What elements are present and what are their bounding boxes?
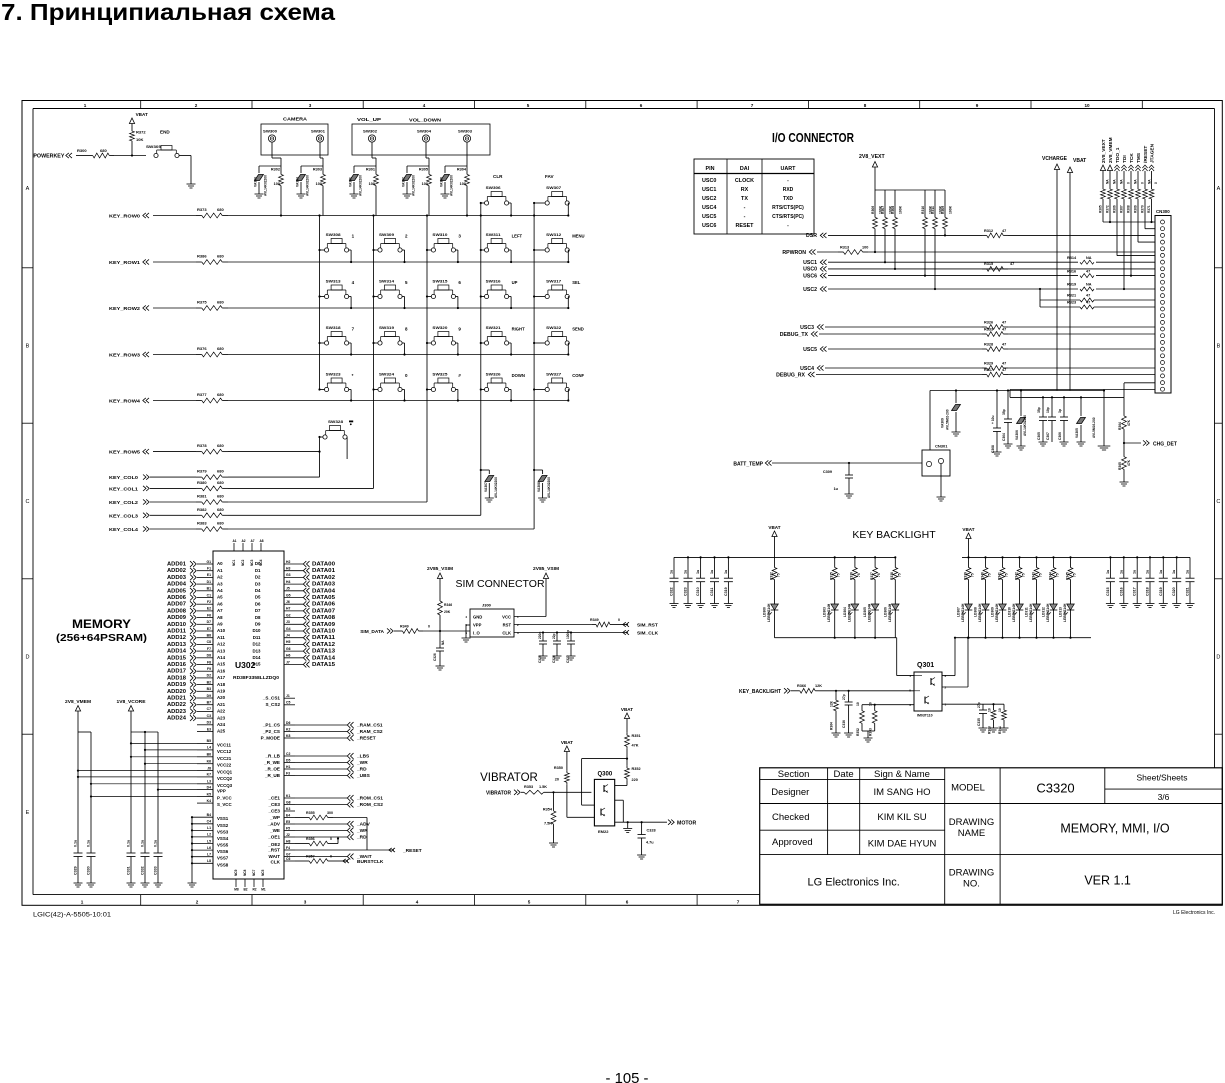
svg-text:C5: C5 (286, 701, 290, 705)
svg-text:SIM_CLK: SIM_CLK (637, 631, 659, 637)
svg-text:D: D (26, 655, 30, 661)
svg-text:47: 47 (1002, 321, 1006, 325)
svg-text:E2: E2 (207, 607, 211, 611)
svg-text:AVL14K02200: AVL14K02200 (412, 175, 416, 196)
svg-text:_CE3: _CE3 (268, 802, 281, 807)
svg-text:1u: 1u (670, 570, 674, 574)
svg-text:S_VCC: S_VCC (217, 802, 232, 807)
svg-text:R349: R349 (590, 618, 599, 622)
svg-text:3p: 3p (1058, 409, 1062, 413)
svg-text:C7: C7 (207, 707, 211, 711)
svg-text:R352: R352 (856, 728, 860, 736)
svg-text:L2: L2 (207, 833, 211, 837)
svg-text:K5: K5 (207, 792, 211, 796)
svg-text:0: 0 (330, 855, 332, 859)
svg-text:H7: H7 (286, 607, 290, 611)
svg-text:DRAWING: DRAWING (949, 817, 995, 828)
svg-text:PIN: PIN (706, 166, 715, 172)
svg-text:_CE3: _CE3 (268, 808, 281, 813)
svg-text:SEL: SEL (572, 280, 581, 285)
svg-text:NA: NA (1113, 179, 1117, 184)
svg-text:G5: G5 (286, 593, 291, 597)
svg-text:680: 680 (217, 443, 224, 448)
svg-text:AVL14K02200: AVL14K02200 (1023, 415, 1027, 436)
svg-text:NC5: NC5 (261, 869, 265, 876)
svg-text:C317: C317 (1133, 587, 1137, 596)
svg-text:A19: A19 (217, 689, 226, 694)
svg-text:47: 47 (1086, 294, 1090, 298)
svg-text:VIBRATOR: VIBRATOR (486, 790, 511, 796)
svg-text:E1: E1 (207, 573, 211, 577)
svg-text:VSS3: VSS3 (217, 829, 229, 834)
svg-text:300: 300 (327, 811, 333, 815)
svg-text:0: 0 (1154, 182, 1158, 184)
svg-text:R353: R353 (869, 728, 873, 736)
svg-text:KEY_COL4: KEY_COL4 (109, 527, 139, 532)
svg-text:AVL14K02200: AVL14K02200 (494, 477, 498, 498)
svg-text:1u: 1u (1133, 570, 1137, 574)
svg-text:VCC12: VCC12 (217, 749, 232, 754)
svg-text:3/6: 3/6 (1158, 792, 1170, 802)
svg-text:R380: R380 (197, 480, 207, 485)
svg-text:A12: A12 (217, 642, 226, 647)
svg-text:A23: A23 (217, 715, 226, 720)
svg-text:L6: L6 (207, 846, 211, 850)
svg-text:AVL5M02-200: AVL5M02-200 (946, 409, 950, 430)
svg-text:R341: R341 (997, 572, 1001, 580)
svg-text:BURSTCLK: BURSTCLK (357, 859, 384, 865)
svg-text:0: 0 (618, 618, 620, 622)
svg-text:D15: D15 (252, 662, 261, 667)
svg-text:IM SANG HO: IM SANG HO (873, 787, 930, 798)
svg-text:9: 9 (458, 327, 461, 332)
svg-text:J4: J4 (286, 634, 290, 638)
svg-text:CLK: CLK (271, 859, 281, 864)
svg-text:F1: F1 (207, 567, 211, 571)
svg-text:A1: A1 (232, 539, 236, 543)
svg-text:USC0: USC0 (702, 178, 716, 184)
svg-text:R356: R356 (306, 837, 315, 841)
svg-text:VSS8: VSS8 (217, 862, 229, 867)
svg-text:R312: R312 (984, 229, 993, 233)
svg-text:2: 2 (405, 234, 408, 239)
svg-text:LD304: LD304 (843, 607, 847, 617)
svg-text:_RESET: _RESET (402, 848, 422, 854)
svg-text:MEMORY, MMI, I/O: MEMORY, MMI, I/O (1060, 822, 1170, 836)
svg-text:CTS/RTS(PC): CTS/RTS(PC) (772, 214, 804, 220)
svg-text:R315: R315 (984, 262, 993, 266)
svg-text:DATA09: DATA09 (312, 622, 335, 628)
svg-text:SW322: SW322 (546, 326, 561, 330)
svg-text:10: 10 (869, 702, 873, 706)
svg-text:A8: A8 (217, 615, 223, 620)
svg-text:10: 10 (988, 708, 992, 712)
svg-text:J2: J2 (286, 833, 290, 837)
svg-text:NA: NA (1086, 283, 1092, 287)
svg-text:47: 47 (1010, 262, 1014, 266)
svg-text:AVL14K02200: AVL14K02200 (450, 175, 454, 196)
svg-text:7. Принципиальная схема: 7. Принципиальная схема (1, 0, 335, 25)
svg-text:R376: R376 (197, 346, 207, 351)
svg-text:LEBB-S14H: LEBB-S14H (827, 603, 831, 622)
svg-text:L4: L4 (207, 746, 211, 750)
svg-text:SW325: SW325 (432, 373, 447, 377)
svg-text:NA: NA (441, 640, 445, 645)
svg-text:10: 10 (1084, 103, 1090, 108)
svg-text:C316: C316 (1119, 587, 1123, 596)
svg-text:C315: C315 (1106, 587, 1110, 596)
svg-text:GND: GND (473, 615, 482, 620)
svg-text:A25: A25 (217, 729, 226, 734)
svg-text:VCHARGE: VCHARGE (1042, 156, 1068, 162)
svg-text:C307: C307 (1046, 432, 1050, 440)
svg-text:D2: D2 (255, 575, 261, 580)
svg-text:G8: G8 (286, 800, 291, 804)
svg-text:_RESET: _RESET (356, 736, 376, 742)
svg-text:LD306: LD306 (883, 607, 887, 617)
svg-text:LD305: LD305 (863, 607, 867, 617)
svg-text:R349: R349 (400, 625, 409, 629)
svg-text:KEY_ROW1: KEY_ROW1 (109, 260, 141, 265)
svg-text:7.5K: 7.5K (544, 822, 552, 826)
svg-text:0.1u: 0.1u (141, 840, 145, 847)
svg-text:CLOCK: CLOCK (735, 178, 754, 184)
svg-text:RST: RST (503, 623, 512, 628)
svg-text:R377: R377 (197, 392, 207, 397)
svg-text:C310: C310 (696, 587, 700, 596)
svg-text:_ADV: _ADV (356, 822, 371, 828)
svg-text:47: 47 (1002, 343, 1006, 347)
svg-text:ADD19: ADD19 (167, 682, 186, 688)
svg-text:27p: 27p (842, 694, 846, 700)
svg-text:C327: C327 (566, 655, 570, 663)
svg-text:E3: E3 (207, 727, 211, 731)
svg-text:DATA05: DATA05 (312, 595, 335, 601)
svg-text:R300: R300 (77, 148, 87, 153)
svg-text:A13: A13 (217, 648, 226, 653)
svg-text:5: 5 (405, 280, 408, 285)
svg-text:2: 2 (196, 900, 199, 905)
svg-text:K4: K4 (207, 799, 211, 803)
svg-text:TDO_1: TDO_1 (1115, 147, 1121, 163)
svg-text:R305: R305 (419, 168, 428, 172)
svg-text:A7: A7 (217, 608, 223, 613)
svg-text:0.1u: 0.1u (154, 840, 158, 847)
svg-text:R367: R367 (1120, 205, 1124, 213)
svg-text:0: 0 (1141, 182, 1145, 184)
svg-text:I_O: I_O (473, 631, 480, 636)
svg-text:VA304: VA304 (296, 177, 300, 187)
svg-text:10: 10 (856, 702, 860, 706)
svg-text:7: 7 (751, 103, 754, 108)
svg-text:75: 75 (1005, 573, 1009, 577)
svg-text:VSS5: VSS5 (217, 843, 229, 848)
svg-text:C320: C320 (1172, 587, 1176, 596)
svg-text:A20: A20 (217, 695, 226, 700)
svg-text:VPP: VPP (473, 623, 482, 628)
svg-text:J5: J5 (286, 587, 290, 591)
svg-text:2V8_VMEM: 2V8_VMEM (65, 699, 91, 705)
svg-text:DATA00: DATA00 (312, 562, 335, 568)
svg-text:ADD17: ADD17 (167, 669, 186, 675)
svg-text:4: 4 (423, 103, 426, 108)
svg-text:RESET: RESET (736, 223, 755, 229)
svg-text:R369: R369 (1134, 205, 1138, 213)
svg-text:R353: R353 (524, 785, 533, 789)
svg-text:DRAWING: DRAWING (949, 868, 995, 879)
svg-text:20: 20 (555, 778, 559, 782)
svg-text:DATA07: DATA07 (312, 608, 335, 614)
svg-text:DATA15: DATA15 (312, 662, 335, 668)
svg-text:R335: R335 (830, 572, 834, 580)
svg-text:SEND: SEND (572, 327, 584, 332)
svg-text:6: 6 (458, 280, 461, 285)
svg-text:L3: L3 (207, 780, 211, 784)
svg-text:UP: UP (512, 280, 518, 285)
svg-text:D3: D3 (255, 581, 261, 586)
svg-text:75: 75 (1039, 573, 1043, 577)
svg-text:LEBB-S14H: LEBB-S14H (1029, 603, 1033, 622)
svg-text:ADD05: ADD05 (167, 588, 186, 594)
svg-text:2V85_VSIM: 2V85_VSIM (427, 566, 453, 571)
svg-text:R383: R383 (197, 521, 207, 526)
svg-text:NA: NA (1148, 179, 1152, 184)
svg-text:KEY_COL1: KEY_COL1 (109, 486, 139, 491)
svg-text:SW302: SW302 (363, 130, 377, 134)
svg-text:TMS: TMS (1136, 152, 1142, 163)
svg-text:47: 47 (1086, 269, 1090, 273)
svg-text:R321: R321 (1067, 294, 1076, 298)
svg-text:H8: H8 (286, 839, 290, 843)
svg-text:F8: F8 (207, 660, 211, 664)
svg-text:680: 680 (217, 346, 224, 351)
svg-text:VIBRATOR: VIBRATOR (480, 772, 538, 784)
svg-text:0.1u: 0.1u (87, 840, 91, 847)
svg-text:Q300: Q300 (598, 772, 613, 778)
svg-text:C332: C332 (141, 866, 145, 875)
svg-text:R360: R360 (988, 726, 992, 734)
svg-text:R364: R364 (830, 722, 834, 730)
svg-text:D8: D8 (207, 654, 211, 658)
svg-text:75: 75 (1022, 573, 1026, 577)
svg-text:2V8_VEXT: 2V8_VEXT (1101, 139, 1107, 163)
svg-text:R2: R2 (252, 888, 256, 892)
svg-text:VER 1.1: VER 1.1 (1084, 874, 1131, 888)
svg-text:B4: B4 (207, 813, 211, 817)
svg-text:VA309: VA309 (941, 418, 945, 428)
svg-text:F9: F9 (207, 667, 211, 671)
svg-text:LEBB-S14H: LEBB-S14H (1012, 603, 1016, 622)
svg-text:USC6: USC6 (803, 273, 817, 279)
svg-text:VSS1: VSS1 (217, 816, 229, 821)
svg-text:A15: A15 (217, 662, 226, 667)
svg-text:_WR: _WR (356, 760, 368, 766)
svg-text:LEBB-S14H: LEBB-S14H (995, 603, 999, 622)
svg-text:-: - (744, 205, 746, 211)
svg-text:C322: C322 (670, 587, 674, 596)
svg-text:1: 1 (517, 615, 519, 619)
svg-text:C318: C318 (1146, 587, 1150, 596)
svg-text:ADD10: ADD10 (167, 622, 186, 628)
svg-text:Checked: Checked (772, 812, 810, 823)
svg-text:L1: L1 (207, 826, 211, 830)
svg-text:4: 4 (465, 615, 467, 619)
svg-text:R357: R357 (306, 855, 315, 859)
svg-text:SW301: SW301 (311, 130, 325, 134)
svg-text:_RD: _RD (356, 767, 367, 773)
svg-text:ADD08: ADD08 (167, 608, 186, 614)
svg-text:MODEL: MODEL (951, 783, 985, 794)
svg-text:A7: A7 (250, 539, 254, 543)
svg-text:B2: B2 (243, 888, 247, 892)
svg-text:A: A (26, 186, 30, 192)
svg-text:ADD07: ADD07 (167, 602, 186, 608)
svg-text:RX: RX (741, 187, 749, 193)
svg-text:R382: R382 (197, 507, 207, 512)
svg-text:E4: E4 (286, 813, 290, 817)
svg-text:A5: A5 (217, 595, 223, 600)
svg-text:SW317: SW317 (546, 280, 561, 284)
svg-text:KEY_BACKLIGHT: KEY_BACKLIGHT (739, 689, 781, 695)
svg-text:D5: D5 (255, 595, 261, 600)
svg-text:B: B (1217, 344, 1221, 350)
svg-text:F6: F6 (207, 613, 211, 617)
svg-text:ADD04: ADD04 (167, 582, 186, 588)
svg-text:1u: 1u (724, 570, 728, 574)
svg-text:LD312: LD312 (1042, 607, 1046, 617)
svg-text:22p: 22p (552, 633, 556, 639)
svg-text:VA300: VA300 (440, 177, 444, 187)
svg-text:C319: C319 (1159, 587, 1163, 596)
svg-text:NA: NA (1086, 256, 1092, 260)
svg-text:C2: C2 (286, 752, 290, 756)
svg-text:680: 680 (217, 300, 224, 305)
svg-text:R350: R350 (554, 766, 563, 770)
svg-text:R351: R351 (632, 734, 641, 738)
svg-text:R316: R316 (1067, 269, 1076, 273)
svg-text:0: 0 (1127, 182, 1131, 184)
svg-text:100K: 100K (898, 205, 902, 214)
svg-text:R346: R346 (444, 603, 452, 607)
svg-text:DATA01: DATA01 (312, 568, 335, 574)
svg-text:3: 3 (304, 900, 307, 905)
svg-text:C305: C305 (1037, 432, 1041, 440)
svg-text:KEY_ROW3: KEY_ROW3 (109, 353, 141, 358)
svg-text:SW326: SW326 (486, 373, 501, 377)
svg-text:VBAT: VBAT (621, 707, 633, 712)
svg-text:4: 4 (416, 900, 419, 905)
svg-text:_R_OE: _R_OE (264, 766, 280, 771)
svg-text:47K: 47K (632, 744, 639, 748)
svg-text:I/O CONNECTOR: I/O CONNECTOR (772, 131, 854, 145)
svg-text:20K: 20K (444, 610, 451, 614)
svg-text:USC5: USC5 (803, 347, 817, 353)
svg-text:C4: C4 (207, 820, 211, 824)
svg-text:_CE1: _CE1 (268, 795, 281, 800)
svg-text:DATA04: DATA04 (312, 588, 335, 594)
svg-text:DSR: DSR (806, 233, 817, 239)
svg-text:SW308: SW308 (326, 233, 341, 237)
svg-text:R344: R344 (1048, 572, 1052, 580)
svg-text:VCC21: VCC21 (217, 756, 232, 761)
svg-text:A2: A2 (217, 575, 223, 580)
svg-text:680: 680 (217, 207, 224, 212)
svg-text:Date: Date (834, 769, 854, 780)
svg-text:75: 75 (1056, 573, 1060, 577)
svg-text:D1: D1 (255, 568, 261, 573)
svg-text:USC3: USC3 (800, 325, 814, 331)
svg-text:P_MODE: P_MODE (261, 735, 280, 740)
svg-text:5: 5 (528, 900, 531, 905)
svg-text:VOL_DOWN: VOL_DOWN (409, 118, 442, 123)
svg-text:_ROM_CS2: _ROM_CS2 (356, 802, 383, 808)
svg-text:D4: D4 (207, 785, 211, 789)
svg-text:LEFT: LEFT (512, 234, 523, 239)
svg-text:AVL14K02200: AVL14K02200 (359, 175, 363, 196)
svg-text:SW321: SW321 (486, 326, 501, 330)
svg-text:D9: D9 (255, 622, 261, 627)
svg-text:VSS6: VSS6 (217, 849, 229, 854)
svg-text:C335: C335 (977, 718, 981, 726)
svg-text:LD309: LD309 (991, 607, 995, 617)
svg-text:A11: A11 (217, 635, 225, 640)
svg-text:D7: D7 (207, 620, 211, 624)
svg-text:R366: R366 (797, 684, 806, 688)
svg-text:D6: D6 (286, 721, 290, 725)
svg-text:D11: D11 (253, 635, 261, 640)
svg-text:VSS4: VSS4 (217, 836, 229, 841)
svg-text:0.1u: 0.1u (74, 840, 78, 847)
svg-text:DEBUG_RX: DEBUG_RX (776, 372, 805, 378)
svg-text:680: 680 (100, 148, 107, 153)
svg-text:C3: C3 (207, 714, 211, 718)
svg-text:VA306: VA306 (1015, 430, 1019, 440)
svg-text:VCC22: VCC22 (217, 763, 232, 768)
svg-text:F5: F5 (286, 826, 290, 830)
svg-text:12K: 12K (830, 700, 834, 707)
svg-text:C328: C328 (647, 829, 656, 833)
svg-text:VOL_UP: VOL_UP (357, 117, 381, 122)
svg-text:KEY_ROW5: KEY_ROW5 (109, 450, 141, 455)
svg-text:ADD12: ADD12 (167, 635, 186, 641)
svg-text:ADD13: ADD13 (167, 642, 186, 648)
svg-text:R317: R317 (984, 368, 993, 372)
svg-text:E5: E5 (286, 820, 290, 824)
svg-text:A0: A0 (217, 561, 223, 566)
svg-text:LD303: LD303 (823, 607, 827, 617)
svg-text:G6: G6 (286, 647, 291, 651)
svg-text:VCCQ3: VCCQ3 (217, 783, 233, 788)
svg-text:CN301: CN301 (935, 444, 948, 449)
svg-text:R306: R306 (871, 206, 875, 214)
svg-text:C306: C306 (1058, 432, 1062, 440)
svg-text:A14: A14 (217, 655, 226, 660)
svg-text:_P1_CS: _P1_CS (262, 722, 280, 727)
svg-text:CONF: CONF (572, 373, 584, 378)
svg-text:R355: R355 (306, 811, 315, 815)
svg-text:CAMERA: CAMERA (283, 117, 308, 122)
svg-text:LEBB-S14H: LEBB-S14H (888, 603, 892, 622)
svg-text:C: C (1216, 499, 1220, 505)
svg-text:TX: TX (741, 196, 748, 202)
svg-text:0.1u: 0.1u (127, 840, 131, 847)
svg-text:Section: Section (778, 769, 810, 780)
svg-text:NA: NA (1120, 179, 1124, 184)
svg-text:VCC: VCC (502, 615, 511, 620)
svg-text:R313: R313 (840, 246, 849, 250)
svg-text:R337: R337 (870, 572, 874, 580)
svg-text:F2: F2 (207, 600, 211, 604)
